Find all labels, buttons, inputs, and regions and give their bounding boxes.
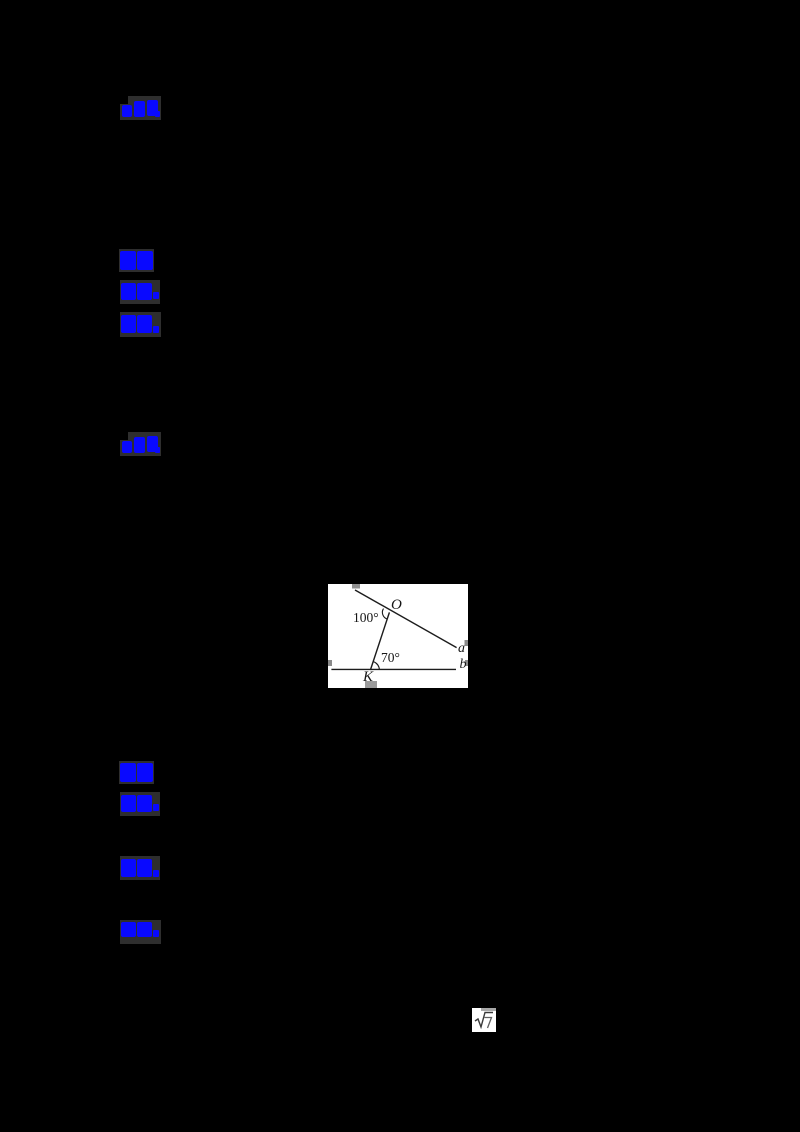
gray artifact top-left [352, 584, 360, 589]
label detail1 (blue highlighted field, y=312) [120, 312, 161, 337]
line a [355, 590, 457, 648]
sqrt(7) equation image (white box) [472, 1008, 496, 1032]
svg-text:70°: 70° [381, 650, 400, 665]
angle arc at K [373, 662, 379, 671]
label answer2 (blue highlighted field, y=761) [119, 761, 154, 784]
gray artifact strip on top of sqrt box [481, 1008, 496, 1011]
label analysis2 (blue highlighted field, y=792) [120, 792, 160, 816]
label link1 (blue highlighted field, y=96) [119, 96, 161, 120]
geometry figure image (white box with lines a,b and point O,K) [328, 584, 468, 688]
gray artifact left end of b [328, 660, 332, 666]
svg-text:b: b [460, 657, 467, 672]
svg-text:a: a [458, 641, 465, 656]
label answer1 (blue highlighted field, y=249) [119, 249, 154, 272]
angle arc at O [382, 609, 387, 619]
svg-text:100°: 100° [353, 610, 379, 625]
label detail2 (blue highlighted field, y=856) [120, 856, 160, 880]
line b [331, 668, 456, 670]
label note (blue highlighted field, y=920) [120, 920, 161, 944]
gray artifact right of a [465, 640, 469, 646]
svg-text:K: K [362, 669, 374, 685]
radical sign [475, 1013, 493, 1028]
segment O-K [370, 612, 389, 670]
label analysis1 (blue highlighted field, y=280) [120, 280, 160, 304]
gray artifact below K [365, 681, 377, 688]
svg-text:O: O [391, 597, 402, 613]
gray artifact right of b [465, 660, 468, 666]
label link2 (blue highlighted field, y=432) [119, 432, 161, 456]
digit 7 [485, 1018, 492, 1029]
